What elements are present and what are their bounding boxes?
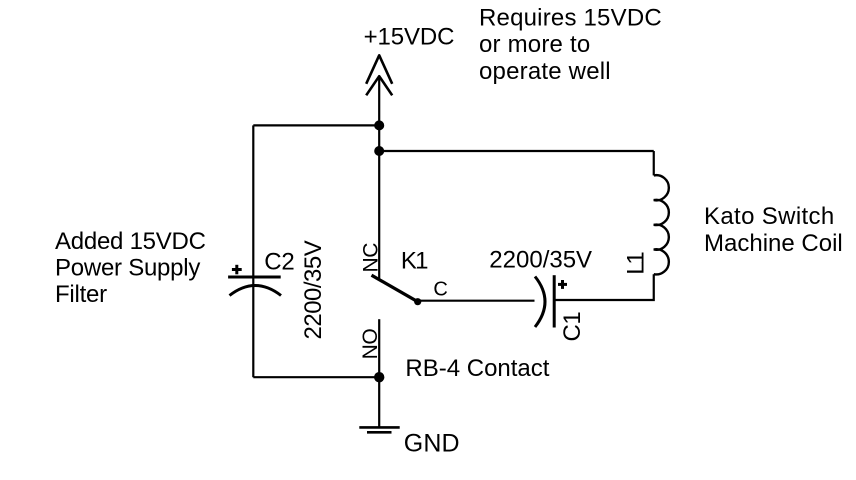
node: junction dot at +15VDC / left branch — [374, 120, 384, 130]
wire: main vertical from power arrow to NC contact — [378, 76, 380, 280]
svg-text:RB-4 Contact: RB-4 Contact — [405, 355, 549, 382]
svg-text:Filter: Filter — [55, 281, 107, 308]
svg-text:Power Supply: Power Supply — [55, 254, 200, 281]
svg-text:NC: NC — [360, 243, 383, 273]
wire: right vertical down to coil — [653, 151, 655, 175]
svg-text:2200/35V: 2200/35V — [300, 240, 327, 339]
note: Added 15VDC Power Supply Filter — [55, 228, 206, 308]
wire: bottom horizontal left branch — [253, 376, 379, 378]
relay K1 switch blade — [372, 275, 418, 302]
label C1 (rotated) — [559, 312, 586, 342]
svg-text:C1: C1 — [559, 312, 586, 342]
pin label C — [433, 279, 447, 301]
capacitor C2 curved plate — [230, 286, 282, 296]
power symbol +15VDC (double chevron arrow) — [366, 55, 392, 95]
svg-text:C2: C2 — [264, 248, 294, 275]
value 2200/35V for C1 — [489, 246, 592, 273]
wire: from switch C terminal to C1 — [418, 300, 535, 302]
label RB-4 Contact — [405, 355, 549, 382]
wire: NO contact vertical — [378, 319, 380, 377]
node: switch pivot dot (C terminal) — [414, 298, 421, 305]
svg-text:K1: K1 — [401, 248, 428, 275]
svg-text:+15VDC: +15VDC — [364, 24, 455, 51]
pin label NO (rotated) — [359, 329, 382, 360]
wire: ground vertical — [378, 377, 380, 426]
inductor L1 coil bumps — [654, 175, 669, 274]
svg-text:C: C — [433, 279, 447, 301]
capacitor C2 top plate — [228, 276, 281, 279]
wire: left vertical through C2 — [252, 125, 254, 377]
ground symbol — [359, 427, 399, 432]
capacitor C1 curved plate — [535, 277, 545, 328]
note: Kato Switch Machine Coil — [704, 203, 843, 257]
label K1 — [401, 248, 428, 275]
capacitor C1 flat plate — [553, 275, 556, 327]
svg-text:Kato Switch: Kato Switch — [704, 203, 835, 230]
wire: right vertical below coil — [554, 274, 654, 300]
label L1 (rotated) — [623, 252, 650, 275]
note: Requires 15VDC or more to operate well — [479, 4, 662, 85]
pin label NC (rotated) — [360, 243, 383, 273]
svg-text:GND: GND — [404, 430, 460, 458]
svg-text:Added 15VDC: Added 15VDC — [55, 228, 206, 255]
svg-text:or more to: or more to — [479, 31, 590, 58]
svg-text:Machine Coil: Machine Coil — [704, 230, 843, 257]
label +15VDC — [364, 24, 455, 51]
node: junction dot at NO / ground — [374, 372, 384, 382]
wire: top horizontal to left branch — [253, 124, 379, 126]
polarity plus of C2 — [232, 265, 242, 275]
label C2 — [264, 248, 294, 275]
svg-text:operate well: operate well — [479, 58, 611, 85]
label GND — [404, 430, 460, 458]
svg-text:2200/35V: 2200/35V — [489, 246, 592, 273]
svg-text:Requires 15VDC: Requires 15VDC — [479, 4, 662, 31]
wire: top horizontal to coil L1 — [379, 150, 654, 152]
value 2200/35V for C2 (rotated) — [300, 240, 327, 339]
svg-text:L1: L1 — [623, 252, 650, 275]
node: junction dot at coil branch — [374, 146, 384, 156]
polarity plus of C1 — [558, 280, 567, 289]
